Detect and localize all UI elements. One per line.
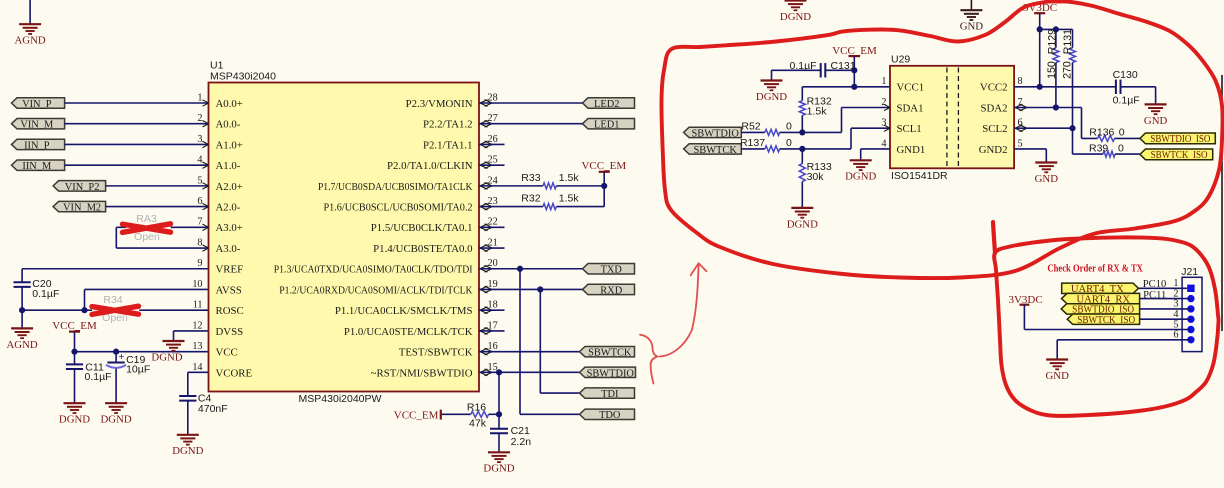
resistor R16 47k	[442, 413, 471, 415]
wire SBWTCK_ISO to J21 pin 4	[1140, 318, 1191, 320]
svg-text:SCL2: SCL2	[982, 123, 1007, 135]
resistor RA3 (open, not fitted) between U1 pins 7 and 8	[171, 226, 209, 228]
svg-text:Check Order of RX & TX: Check Order of RX & TX	[1047, 263, 1143, 275]
svg-text:GND2: GND2	[979, 144, 1008, 156]
svg-text:P1.3/UCA0TXD/UCA0SIMO/TA0CLK/T: P1.3/UCA0TXD/UCA0SIMO/TA0CLK/TDO/TDI	[274, 264, 473, 276]
U1 pin 25 stub wire	[479, 164, 505, 166]
red curved arrow pointing to isolation circuit	[660, 264, 699, 357]
ground GND below C130	[1155, 87, 1157, 105]
svg-text:VIN_P: VIN_P	[22, 99, 52, 110]
wire VIN_P to U1 pin 1	[65, 102, 209, 104]
svg-text:3: 3	[197, 134, 202, 145]
svg-text:IIN_M: IIN_M	[22, 161, 51, 172]
wire RST to R16 node	[498, 372, 500, 414]
ground GND at U29 GND2	[1014, 148, 1046, 150]
red brace near SBWTCK/SBWTDIO	[640, 335, 657, 384]
svg-text:A3.0-: A3.0-	[216, 243, 241, 255]
svg-text:SBWTCK_ISO: SBWTCK_ISO	[1151, 150, 1208, 161]
svg-text:6: 6	[1173, 330, 1178, 341]
svg-text:~RST/NMI/SBWTDIO: ~RST/NMI/SBWTDIO	[371, 367, 473, 379]
svg-text:R33: R33	[521, 172, 540, 184]
red loop around J21 connector	[994, 237, 1218, 416]
wire SBWTDIO_ISO to J21 pin 3	[1140, 308, 1191, 310]
svg-text:2.2n: 2.2n	[511, 436, 532, 448]
resistor R32 1.5k	[479, 206, 543, 208]
svg-text:P2.0/TA1.0/CLKIN: P2.0/TA1.0/CLKIN	[387, 160, 473, 172]
svg-text:R129: R129	[1047, 29, 1059, 54]
svg-text:SBWTCK_ISO: SBWTCK_ISO	[1077, 315, 1135, 326]
red X mark over RA3	[123, 224, 171, 233]
sheet border edge line	[1221, 75, 1223, 331]
wire VCC1 rail	[802, 86, 890, 88]
red loop tail	[993, 222, 995, 253]
svg-text:LED2: LED2	[594, 99, 619, 110]
wire U29 SDA2 net	[1014, 107, 1081, 109]
capacitor C20 0.1uF on VREF	[22, 268, 208, 270]
wire U1 pin 19 to RXD	[479, 288, 583, 290]
capacitor C19 10uF (polarized)	[115, 352, 117, 363]
U1 pin 26 stub wire	[479, 143, 505, 145]
svg-text:3: 3	[881, 118, 886, 129]
svg-text:R34: R34	[103, 294, 122, 306]
svg-text:VCORE: VCORE	[216, 367, 253, 379]
svg-text:DGND: DGND	[151, 351, 182, 363]
svg-text:R16: R16	[467, 402, 486, 414]
svg-text:0: 0	[786, 137, 792, 149]
port SBWTCK (isolator side)	[684, 144, 742, 154]
port VIN_M	[12, 119, 65, 129]
power port VCC_EM at U1 VCC	[69, 331, 80, 333]
junction SCL2/R131	[1069, 125, 1075, 131]
svg-text:DGND: DGND	[780, 11, 811, 23]
svg-text:4: 4	[197, 155, 202, 166]
svg-text:R52: R52	[741, 120, 760, 132]
svg-text:GND1: GND1	[897, 144, 926, 156]
svg-text:270: 270	[1061, 61, 1073, 79]
svg-text:IIN_P: IIN_P	[24, 140, 50, 151]
wire SDA1 riser	[802, 131, 841, 133]
junction SBWTCK/R133	[799, 146, 805, 152]
svg-text:P1.2/UCA0RXD/UCA0SOMI/ACLK/TDI: P1.2/UCA0RXD/UCA0SOMI/ACLK/TDI/TCLK	[279, 284, 472, 296]
port SBWTCK	[580, 346, 635, 356]
junction VCC1 node	[851, 84, 857, 90]
wire U29 VCC2 to C130	[1014, 86, 1116, 88]
svg-text:150: 150	[1046, 61, 1058, 79]
wire U1 pin 15 to SBWTDIO	[479, 371, 580, 373]
svg-text:7: 7	[197, 217, 202, 228]
ground DGND below R133	[791, 207, 813, 209]
svg-text:0.1µF: 0.1µF	[32, 288, 59, 300]
svg-text:0: 0	[1119, 127, 1125, 139]
svg-text:MSP430i2040: MSP430i2040	[210, 71, 276, 83]
svg-text:5: 5	[197, 175, 202, 186]
resistor R52 0	[741, 131, 765, 133]
svg-text:AGND: AGND	[6, 339, 37, 351]
wire U1 pin 27 to LED1	[479, 123, 583, 125]
red X mark over R34	[92, 306, 139, 314]
svg-text:GND: GND	[1035, 173, 1059, 185]
svg-text:VCC_EM: VCC_EM	[394, 409, 439, 421]
wire VCC_EM to U29 VCC1	[853, 70, 855, 87]
svg-text:2: 2	[197, 113, 202, 124]
port RXD	[583, 284, 635, 294]
wire VCC_EM to U1 pin 13	[75, 351, 209, 353]
svg-text:A1.0+: A1.0+	[216, 139, 243, 151]
resistor R132 1.5k pullup	[801, 87, 803, 101]
svg-text:Open: Open	[134, 231, 160, 243]
ground AGND below C20	[21, 310, 23, 328]
svg-text:DGND: DGND	[100, 414, 131, 426]
svg-text:14: 14	[192, 362, 202, 373]
svg-text:R137: R137	[740, 137, 765, 149]
resistor R131 270 (rotated label)	[1070, 48, 1076, 63]
port SBWTCK_ISO (J21)	[1067, 314, 1139, 324]
wire IIN_M to U1 pin 4	[65, 164, 209, 166]
port VIN_M2	[53, 201, 106, 211]
ground DGND at U1 DVSS pin 12	[174, 330, 209, 332]
svg-text:R136: R136	[1089, 127, 1114, 139]
svg-text:2: 2	[881, 97, 886, 108]
wire TDO branch	[519, 269, 521, 415]
capacitor C131 0.1uF	[826, 69, 855, 71]
U1 pin 18 stub wire	[479, 309, 505, 311]
svg-text:0.1µF: 0.1µF	[1113, 94, 1140, 106]
svg-text:SDA2: SDA2	[981, 102, 1008, 114]
svg-text:1.5k: 1.5k	[807, 105, 828, 117]
junction VCC_EM/R33	[601, 183, 607, 189]
port SBWTCK_ISO	[1140, 149, 1213, 160]
wire 3V3DC to pullup resistors	[1040, 28, 1073, 30]
svg-text:TEST/SBWTCK: TEST/SBWTCK	[399, 347, 473, 359]
port VIN_P	[12, 98, 65, 108]
port LED2	[583, 98, 635, 108]
svg-text:A2.0+: A2.0+	[216, 181, 243, 193]
ground DGND below C131	[771, 70, 773, 80]
junction VCC_EM/C131	[851, 67, 857, 73]
svg-text:8: 8	[1018, 76, 1023, 87]
ground GND (top of isolation area)	[970, 0, 972, 10]
svg-text:+: +	[118, 351, 124, 363]
power port VCC_EM for I2C pullups	[599, 171, 610, 173]
svg-text:SBWTDIO: SBWTDIO	[587, 368, 635, 379]
svg-text:C130: C130	[1113, 69, 1138, 81]
svg-text:VCC2: VCC2	[980, 82, 1008, 94]
svg-text:LED1: LED1	[594, 120, 619, 131]
svg-text:30k: 30k	[807, 171, 825, 183]
junction R16/C21	[496, 411, 502, 417]
svg-text:P1.1/UCA0CLK/SMCLK/TMS: P1.1/UCA0CLK/SMCLK/TMS	[335, 305, 473, 317]
svg-text:5: 5	[1018, 138, 1023, 149]
power port AGND (top left)	[29, 0, 31, 24]
port IIN_P	[12, 139, 65, 149]
J21 pin 3 pad	[1187, 305, 1194, 312]
svg-text:P2.3/VMONIN: P2.3/VMONIN	[406, 98, 473, 110]
wire VIN_M2 to U1 pin 6	[106, 206, 209, 208]
svg-text:A3.0+: A3.0+	[216, 222, 243, 234]
port VIN_P2	[53, 181, 106, 191]
isolator U29 ISO1541DR body	[890, 66, 1014, 169]
svg-text:VCC_EM: VCC_EM	[581, 160, 626, 172]
svg-text:A0.0+: A0.0+	[216, 98, 243, 110]
junction VCC2/3V3DC	[1037, 84, 1043, 90]
ground DGND below C11	[64, 402, 86, 404]
wire U1 pin 16 to SBWTCK	[479, 351, 580, 353]
svg-text:SBWTCK: SBWTCK	[694, 145, 738, 156]
svg-text:TDI: TDI	[601, 389, 619, 400]
port SBWTDIO_ISO (J21)	[1061, 304, 1139, 314]
wire U1 pin 20 to TXD	[479, 268, 583, 270]
resistor R34 (open) on ROSC	[22, 309, 84, 311]
capacitor C130 0.1uF	[1115, 80, 1117, 94]
svg-text:0: 0	[786, 120, 792, 132]
capacitor C21 2.2n	[498, 414, 500, 428]
svg-text:VIN_P2: VIN_P2	[65, 182, 100, 193]
svg-text:GND: GND	[1045, 370, 1069, 382]
svg-text:P2.2/TA1.2: P2.2/TA1.2	[423, 119, 473, 131]
ground DGND below C19	[105, 402, 127, 404]
svg-text:DGND: DGND	[756, 91, 787, 103]
port SBWTDIO_ISO	[1140, 133, 1215, 144]
svg-text:SBWTCK: SBWTCK	[588, 348, 632, 359]
wire IIN_P to U1 pin 3	[65, 143, 209, 145]
svg-text:AGND: AGND	[14, 35, 45, 47]
capacitor C4 470nF at U1 VCORE	[188, 371, 209, 373]
svg-text:A2.0-: A2.0-	[216, 202, 241, 214]
svg-text:SCL1: SCL1	[897, 123, 922, 135]
junction VCC/C19	[113, 349, 119, 355]
junction SDA2/R129	[1053, 104, 1059, 110]
svg-text:47k: 47k	[469, 418, 487, 430]
svg-text:VCC1: VCC1	[897, 82, 925, 94]
svg-text:A1.0-: A1.0-	[216, 160, 241, 172]
port IIN_M	[12, 160, 65, 170]
svg-text:4: 4	[881, 138, 886, 149]
svg-text:P1.5/UCB0CLK/TA0.1: P1.5/UCB0CLK/TA0.1	[371, 222, 473, 234]
port SBWTDIO (isolator side)	[684, 127, 742, 137]
ground DGND below C21	[488, 451, 510, 453]
svg-text:DGND: DGND	[172, 445, 203, 457]
svg-text:DGND: DGND	[787, 218, 818, 230]
wire UART4_RX to J21 pin 2	[1140, 298, 1191, 300]
svg-text:SBWTDIO_ISO: SBWTDIO_ISO	[1150, 134, 1210, 145]
J21 pin 4 pad	[1187, 316, 1194, 323]
resistor R133 30k	[801, 149, 803, 164]
svg-text:C131: C131	[831, 60, 856, 72]
svg-text:RA3: RA3	[136, 213, 157, 225]
resistor R136 0	[1098, 135, 1115, 141]
resistor R129 150 (rotated label)	[1055, 29, 1057, 47]
svg-text:P1.7/UCB0SDA/UCB0SIMO/TA1CLK: P1.7/UCB0SDA/UCB0SIMO/TA1CLK	[318, 181, 473, 193]
svg-text:VREF: VREF	[216, 264, 244, 276]
svg-text:SDA1: SDA1	[897, 102, 924, 114]
ground DGND below C4	[177, 434, 199, 436]
U1 pin 22 stub wire	[479, 226, 505, 228]
wire TDI branch	[539, 289, 541, 393]
port TDO	[580, 409, 635, 419]
wire UART4_TX to J21 pin 1	[1139, 287, 1188, 289]
port TDI	[580, 388, 635, 398]
junction SBWTDIO/R132	[799, 129, 805, 135]
svg-text:P1.6/UCB0SCL/UCB0SOMI/TA0.2: P1.6/UCB0SCL/UCB0SOMI/TA0.2	[323, 202, 472, 214]
svg-text:1.5k: 1.5k	[559, 193, 580, 205]
svg-text:P1.0/UCA0STE/MCLK/TCK: P1.0/UCA0STE/MCLK/TCK	[344, 326, 473, 338]
svg-text:DGND: DGND	[483, 463, 514, 475]
ground GND below J21	[1046, 358, 1068, 360]
node junction VREF/C20/R34	[19, 307, 25, 313]
svg-text:A0.0-: A0.0-	[216, 119, 241, 131]
svg-text:SBWTDIO: SBWTDIO	[692, 128, 740, 139]
capacitor C11 0.1uF	[74, 352, 76, 365]
svg-text:DVSS: DVSS	[216, 326, 244, 338]
svg-text:470nF: 470nF	[198, 403, 228, 415]
svg-text:DGND: DGND	[845, 171, 876, 183]
svg-text:R131: R131	[1062, 29, 1074, 54]
svg-text:0: 0	[1118, 142, 1124, 154]
svg-text:VIN_M: VIN_M	[20, 120, 53, 131]
svg-text:R32: R32	[521, 193, 540, 205]
J21 pin 5 pad	[1187, 326, 1194, 333]
junction VCC/C11	[71, 349, 77, 355]
port UART4_TX	[1062, 283, 1139, 293]
svg-text:0.1µF: 0.1µF	[85, 371, 112, 383]
resistor R33 1.5k	[479, 185, 543, 187]
svg-text:P1.4/UCB0STE/TA0.0: P1.4/UCB0STE/TA0.0	[373, 243, 472, 255]
connector J21 body	[1182, 277, 1202, 351]
U1 pin 21 stub wire	[479, 247, 505, 249]
svg-text:P2.1/TA1.1: P2.1/TA1.1	[423, 139, 473, 151]
red hand-drawn loop around isolation circuit	[661, 1, 1222, 278]
svg-text:U29: U29	[891, 54, 910, 66]
svg-text:TXD: TXD	[601, 265, 623, 276]
svg-text:6: 6	[197, 196, 202, 207]
svg-text:1.5k: 1.5k	[559, 172, 580, 184]
J21 pin 1 pad (square)	[1187, 285, 1194, 292]
svg-text:VCC: VCC	[216, 347, 238, 359]
ground DGND (top of isolation area)	[795, 0, 797, 2]
svg-text:12: 12	[192, 320, 202, 331]
wire VIN_P2 to U1 pin 5	[106, 185, 209, 187]
svg-text:TDO: TDO	[599, 410, 621, 421]
U29 isolation barrier dashed lines	[946, 68, 948, 167]
resistor R39 0	[1103, 151, 1115, 157]
svg-text:1: 1	[197, 92, 202, 103]
port TXD	[583, 264, 635, 274]
svg-text:GND: GND	[1144, 115, 1168, 127]
wire U29 SCL2 net	[1014, 127, 1072, 129]
svg-text:AVSS: AVSS	[216, 284, 242, 296]
svg-text:R39: R39	[1089, 142, 1108, 154]
svg-text:10: 10	[192, 279, 202, 290]
svg-text:0.1µF: 0.1µF	[790, 60, 817, 72]
J21 pin 2 pad	[1187, 295, 1194, 302]
svg-text:9: 9	[197, 258, 202, 269]
junction TXD/TDO branch	[517, 266, 523, 272]
J21 pin 6 pad	[1187, 336, 1194, 343]
junction RST node	[496, 369, 502, 375]
svg-text:VCC_EM: VCC_EM	[52, 320, 97, 332]
svg-text:RXD: RXD	[600, 285, 622, 296]
svg-text:13: 13	[192, 341, 202, 352]
svg-text:10µF: 10µF	[126, 364, 150, 376]
svg-text:J21: J21	[1181, 266, 1198, 278]
op-amp/mcu U1 MSP430i2040 body	[209, 83, 480, 392]
wire SCL1 riser	[802, 148, 851, 150]
svg-text:VIN_M2: VIN_M2	[63, 203, 101, 214]
svg-text:11: 11	[193, 300, 203, 311]
wire U1 pin 28 to LED2	[479, 102, 583, 104]
ground DGND at U29 GND1	[861, 148, 890, 150]
wire 3V3DC to J21 pin 5	[1023, 305, 1025, 330]
node 3V3DC rail	[1037, 26, 1043, 32]
svg-text:GND: GND	[960, 21, 984, 33]
port LED1	[583, 119, 635, 129]
resistor R137 0	[741, 148, 765, 150]
port UART4_RX	[1062, 293, 1140, 303]
junction RXD/TDI branch	[537, 286, 543, 292]
U1 pin 17 stub wire	[479, 330, 505, 332]
svg-text:ROSC: ROSC	[216, 305, 244, 317]
wire VIN_M to U1 pin 2	[65, 123, 209, 125]
port SBWTDIO	[580, 367, 636, 377]
svg-text:8: 8	[197, 237, 202, 248]
svg-text:ISO1541DR: ISO1541DR	[891, 170, 948, 182]
wire GND to J21 pin 6	[1057, 339, 1191, 341]
svg-text:MSP430i2040PW: MSP430i2040PW	[299, 393, 382, 405]
svg-text:1: 1	[881, 76, 886, 87]
svg-text:DGND: DGND	[59, 414, 90, 426]
wire AVSS branch	[84, 289, 86, 310]
